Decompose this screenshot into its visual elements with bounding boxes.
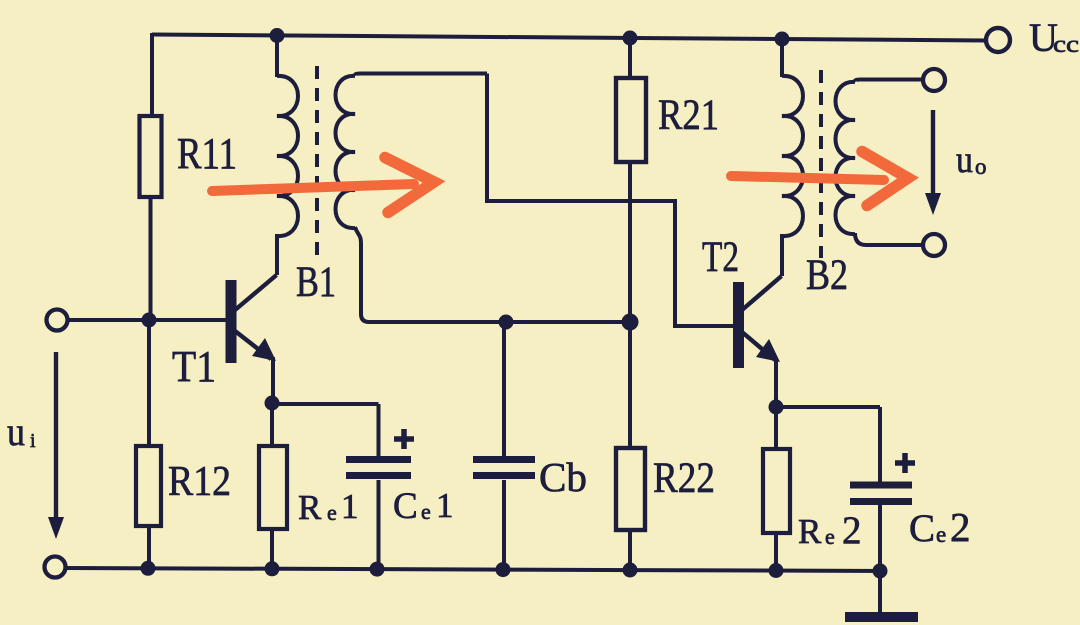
svg-text:o: o [975, 154, 987, 179]
signal arrow stage 2 head [862, 152, 908, 206]
svg-text:Cb: Cb [539, 454, 587, 500]
svg-text:cc: cc [1053, 32, 1079, 58]
svg-text:u: u [956, 139, 973, 181]
transformer B2 core [819, 70, 823, 258]
resistor R21 [616, 78, 646, 162]
svg-text:R: R [298, 488, 322, 527]
svg-text:B2: B2 [806, 252, 848, 299]
wire: bottom ground rail [66, 568, 887, 571]
svg-text:C: C [909, 507, 935, 550]
transistor T2 emitter [742, 332, 775, 360]
wire: emitter node to Ce1 [272, 404, 379, 458]
wire: Re2 bottom lead [774, 533, 778, 570]
junction: T1 emitter node [265, 396, 280, 411]
svg-text:R21: R21 [658, 92, 719, 139]
wire: Re1 bottom lead [270, 529, 274, 569]
wire: B1 secondary bottom lead to bias node [355, 227, 630, 322]
transformer B1 primary lead [275, 35, 279, 77]
plus sign Ce1 [394, 429, 414, 449]
resistor R12 [136, 446, 161, 526]
transistor T2 base bar [733, 282, 744, 368]
capacitor Ce2 [850, 485, 912, 502]
arrowhead u_i [48, 517, 64, 539]
svg-text:B1: B1 [296, 259, 336, 306]
transistor T1 emitter arrowhead [252, 338, 276, 361]
wire: Re2 top lead [774, 407, 778, 449]
junction: bottom rail Cb [496, 562, 511, 577]
capacitor Cb [473, 460, 535, 476]
wire: R21 top lead [628, 37, 632, 78]
svg-text:e: e [936, 522, 946, 547]
svg-text:R22: R22 [653, 455, 715, 502]
svg-text:u: u [7, 409, 25, 454]
wire: Cb bottom lead [502, 480, 506, 570]
svg-text:2: 2 [842, 509, 862, 552]
wire: T2 emitter node to Ce2 [775, 407, 880, 482]
wire: B1 secondary top lead [355, 74, 487, 77]
junction: bottom rail R22 [623, 563, 638, 578]
svg-text:1: 1 [341, 487, 359, 526]
transformer B1 primary winding [277, 76, 298, 236]
signal arrow stage 1 head [385, 158, 434, 213]
transistor T1 base bar [226, 280, 237, 363]
svg-text:e: e [421, 499, 431, 524]
resistor R22 [616, 448, 645, 530]
arrowhead u_o [925, 193, 941, 215]
wire: top supply rail [152, 35, 986, 41]
junction: T2 emitter node [769, 400, 784, 415]
transformer B2 secondary winding [836, 82, 856, 234]
wire: B2 primary to T2 collector [780, 234, 784, 276]
wire: B2 secondary bottom lead to output [855, 233, 923, 245]
terminal: output top [923, 69, 945, 91]
wire: Ce1 bottom lead [377, 480, 381, 570]
wire: R21 bottom lead [628, 162, 632, 322]
wire: R11 bottom lead [149, 197, 153, 320]
wire: input to T1 base [68, 318, 229, 322]
transformer B2 primary lead [780, 38, 784, 77]
junction: bottom rail R12 [141, 561, 156, 576]
transistor T2 collector [742, 276, 782, 310]
junction: bottom rail Ce1 [370, 562, 385, 577]
transistor T1 emitter [235, 331, 271, 359]
transistor T2 emitter arrowhead [756, 339, 780, 362]
svg-text:e: e [825, 524, 835, 549]
wire: Ce2 bottom lead [878, 505, 882, 571]
wire: Cb top lead [502, 322, 506, 458]
wire: T1 emitter lead down [271, 357, 275, 403]
wire: B1 secondary top to T2 base [487, 74, 733, 327]
junction: top rail B2 [775, 32, 790, 47]
terminal: input top [47, 310, 68, 331]
svg-text:i: i [30, 430, 36, 452]
junction: bottom rail Re1 [265, 561, 280, 576]
svg-text:R12: R12 [168, 459, 231, 505]
svg-text:C: C [393, 486, 418, 527]
junction: bottom rail Ce2 [873, 563, 888, 578]
transistor T1 collector [235, 275, 277, 310]
svg-text:1: 1 [436, 486, 454, 525]
terminal: Ucc [986, 28, 1010, 52]
wire: R22 bottom lead [628, 530, 632, 570]
junction: Cb tap [499, 315, 514, 330]
wire: Re1 top lead [270, 404, 274, 446]
wire: R12 bottom lead [147, 526, 151, 569]
svg-text:e: e [327, 500, 337, 525]
junction: bias node R21 R22 [622, 314, 639, 331]
resistor Re1 [259, 446, 287, 529]
ground [845, 612, 918, 622]
junction: top rail R21 [623, 31, 638, 46]
wire: left drop from rail to R11 [150, 33, 154, 116]
junction: input base node [142, 313, 157, 328]
wire: R22 top lead [628, 322, 632, 448]
plus sign Ce2 [895, 453, 915, 473]
svg-text:R: R [798, 512, 822, 551]
transformer B1 core [315, 66, 319, 258]
svg-text:2: 2 [950, 504, 971, 550]
wire: B2 secondary top lead to output [855, 80, 923, 83]
capacitor Ce1 [346, 460, 411, 476]
arrow u_i shaft [54, 352, 58, 520]
svg-text:R11: R11 [177, 129, 237, 178]
wire: B1 primary to T1 collector [275, 234, 279, 275]
wire: R12 top lead [147, 320, 151, 446]
arrow u_o shaft [931, 110, 935, 196]
junction: top rail B1 [270, 28, 285, 43]
signal arrow stage 1 shaft [212, 184, 414, 191]
svg-text:T1: T1 [172, 342, 216, 391]
resistor R11 [140, 116, 162, 197]
terminal: input bottom [45, 557, 66, 578]
junction: bottom rail Re2 [769, 563, 784, 578]
wire: ground lead [878, 571, 882, 612]
terminal: output bottom [923, 234, 945, 256]
transformer B2 primary winding [782, 76, 803, 236]
transformer B1 secondary winding [336, 76, 356, 228]
resistor Re2 [763, 449, 790, 533]
svg-text:T2: T2 [702, 234, 739, 281]
signal arrow stage 2 shaft [731, 176, 884, 180]
wire: T2 emitter lead down [774, 358, 778, 407]
